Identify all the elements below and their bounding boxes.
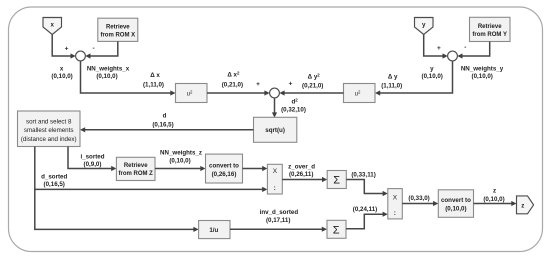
svg-text:(0,10,0): (0,10,0) <box>422 73 443 80</box>
wire y to sum <box>424 35 448 59</box>
svg-text:convert to: convert to <box>441 197 471 204</box>
wire ROM Y to sum <box>457 42 489 59</box>
svg-text:convert to: convert to <box>209 163 239 170</box>
label x (0,10,0) <box>51 65 72 80</box>
svg-text:(0,16,5): (0,16,5) <box>152 121 173 128</box>
wire z out <box>474 201 517 206</box>
svg-text::: : <box>394 210 396 217</box>
svg-text:X: X <box>273 168 278 175</box>
svg-text:z: z <box>521 202 524 209</box>
svg-text:sort and select 8: sort and select 8 <box>26 119 72 126</box>
label NN_weights_z (0,10,0) <box>160 149 202 164</box>
wire inv_d_sorted <box>230 227 327 232</box>
svg-text:d: d <box>163 113 167 120</box>
label d_sorted (0,16,5) <box>41 173 67 188</box>
svg-text:(0,16,5): (0,16,5) <box>44 181 65 188</box>
output port z <box>517 196 534 214</box>
svg-text:Δ y: Δ y <box>388 74 398 81</box>
svg-text:(0,17,11): (0,17,11) <box>266 217 290 224</box>
wire delta-x^2 <box>207 90 270 95</box>
svg-text:Retrieve: Retrieve <box>124 163 148 169</box>
svg-text:(0,33,11): (0,33,11) <box>351 172 375 179</box>
svg-text:(0,32,10): (0,32,10) <box>281 107 306 114</box>
svg-text:(0,10,0): (0,10,0) <box>472 73 493 80</box>
block convert to (0,10,0) <box>438 190 473 218</box>
wire sigma2 to X2 <box>346 212 388 229</box>
label delta-x^2 (0,21,0) <box>222 70 243 88</box>
block Retrieve from ROM Y <box>470 17 511 41</box>
svg-text:+: + <box>437 45 441 52</box>
svg-text:Retrieve: Retrieve <box>478 24 502 30</box>
svg-text:from ROM X: from ROM X <box>100 32 135 38</box>
svg-text:z_over_d: z_over_d <box>288 163 315 170</box>
label delta-x (1,11,0) <box>143 72 164 88</box>
svg-text:x: x <box>50 22 54 29</box>
svg-text:-: - <box>464 44 466 51</box>
wire x to sum <box>52 35 75 59</box>
svg-text:NN_weights_z: NN_weights_z <box>160 149 202 156</box>
wire d_sorted branch <box>35 147 268 233</box>
svg-text:inv_d_sorted: inv_d_sorted <box>260 209 299 216</box>
svg-text:from ROM Y: from ROM Y <box>472 32 507 38</box>
block Retrieve from ROM Z <box>116 157 155 180</box>
svg-text:(0,9,0): (0,9,0) <box>84 161 102 168</box>
block Retrieve from ROM X <box>98 18 138 41</box>
svg-text:(0,21,0): (0,21,0) <box>222 82 243 89</box>
wire z_over_d <box>282 177 327 182</box>
svg-text:Σ: Σ <box>333 175 340 187</box>
block divide X1 <box>267 164 282 194</box>
wire sigma1 to X2 <box>346 180 388 197</box>
block convert to (0,26,16) <box>206 154 243 183</box>
label z_over_d (0,26,11) <box>288 163 315 178</box>
label y (0,10,0) <box>422 65 443 80</box>
svg-text::: : <box>274 185 276 192</box>
svg-text:i_sorted: i_sorted <box>80 153 104 160</box>
svg-text:(0,10,0): (0,10,0) <box>169 157 190 164</box>
svg-text:(1,11,0): (1,11,0) <box>143 82 164 89</box>
label delta-y (1,11,0) <box>381 74 402 90</box>
label NN_weights_y (0,10,0) <box>461 65 504 80</box>
svg-text:(0,26,11): (0,26,11) <box>289 171 313 178</box>
svg-text:(0,10,0): (0,10,0) <box>445 206 466 213</box>
svg-text:(0,33,0): (0,33,0) <box>408 195 429 202</box>
summing junction d2 <box>270 88 280 98</box>
label z (0,10,0) <box>483 188 504 203</box>
block u^2 y <box>344 84 376 103</box>
svg-text:NN_weights_x: NN_weights_x <box>87 65 130 72</box>
block sigma 2 <box>327 220 346 238</box>
svg-text:from ROM Z: from ROM Z <box>119 171 154 177</box>
label inv_d_sorted (0,17,11) <box>260 209 299 224</box>
svg-text:z: z <box>493 188 496 195</box>
wire convert to X1 <box>243 166 268 171</box>
block 1/u <box>199 221 230 239</box>
summing junction x <box>76 51 86 61</box>
block sigma 1 <box>327 171 346 189</box>
input port y <box>415 18 434 35</box>
svg-text:smallest elements: smallest elements <box>24 127 74 134</box>
wire i_sorted <box>68 147 116 172</box>
label d2 (0,32,10) <box>281 98 306 114</box>
svg-text:Σ: Σ <box>333 224 340 236</box>
wire ROM Z to convert <box>155 166 206 171</box>
wire delta-y^2 <box>279 90 343 95</box>
wire delta-x <box>81 61 176 96</box>
svg-text:(distance and index): (distance and index) <box>21 136 77 143</box>
svg-text:(0,10,0): (0,10,0) <box>483 196 504 203</box>
svg-text:X: X <box>393 194 398 201</box>
svg-text:+: + <box>65 46 69 53</box>
summing junction y <box>448 51 458 61</box>
wire X2 to convert <box>402 201 438 206</box>
block u^2 x <box>176 84 208 103</box>
svg-text:-: - <box>93 45 95 52</box>
wire d to sort block <box>80 127 254 132</box>
svg-text:y: y <box>422 22 426 29</box>
svg-text:NN_weights_y: NN_weights_y <box>461 65 504 72</box>
svg-text:(0,10,0): (0,10,0) <box>51 73 72 80</box>
label i_sorted (0,9,0) <box>80 153 104 168</box>
wire d2 to sqrt <box>272 98 277 118</box>
svg-text:(0,10,0): (0,10,0) <box>96 73 117 80</box>
svg-text:Δ x: Δ x <box>150 72 160 79</box>
label d (0,16,5) <box>152 113 173 129</box>
input port x <box>43 18 62 35</box>
svg-text:(0,21,0): (0,21,0) <box>302 83 323 90</box>
svg-text:+: + <box>256 81 260 88</box>
svg-text:+: + <box>289 81 293 88</box>
label delta-y^2 (0,21,0) <box>302 73 323 90</box>
svg-text:d_sorted: d_sorted <box>41 173 67 180</box>
svg-text:x: x <box>60 65 64 72</box>
label NN_weights_x (0,10,0) <box>87 65 130 80</box>
wire ROM X to sum <box>85 41 118 58</box>
svg-text:(0,24,11): (0,24,11) <box>353 206 377 213</box>
svg-text:(0,26,16): (0,26,16) <box>212 171 237 178</box>
svg-text:Retrieve: Retrieve <box>106 25 130 31</box>
svg-text:y: y <box>430 65 434 72</box>
svg-text:(1,11,0): (1,11,0) <box>381 83 402 90</box>
block divide X2 <box>388 189 403 219</box>
block sqrt(u) <box>254 117 297 142</box>
svg-text:1/u: 1/u <box>209 227 218 234</box>
wire delta-y <box>375 61 453 96</box>
svg-text:sqrt(u): sqrt(u) <box>265 127 285 134</box>
block sort and select <box>18 111 81 147</box>
